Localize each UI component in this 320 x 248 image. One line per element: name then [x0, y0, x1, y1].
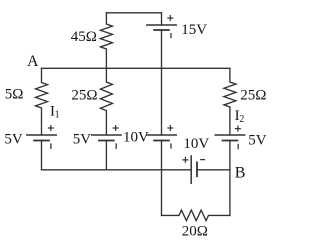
wire C3 lower: [161, 141, 163, 216]
battery 5V right: [215, 126, 244, 215]
resistor R 25ohm left: [100, 68, 112, 135]
svg-text:1: 1: [55, 109, 60, 120]
svg-text:15V: 15V: [181, 22, 207, 38]
svg-text:A: A: [27, 53, 39, 70]
battery 5V middle: [92, 126, 121, 170]
battery 15V: [147, 13, 176, 69]
resistor R 45ohm: [100, 13, 112, 69]
resistor R 5ohm: [36, 68, 48, 135]
svg-text:5V: 5V: [73, 131, 92, 147]
resistor R 25ohm right: [224, 68, 236, 135]
wire top rail: [106, 12, 161, 14]
resistor R 20ohm bottom: [162, 210, 230, 221]
svg-text:B: B: [235, 165, 246, 182]
battery 10V column: [147, 68, 176, 148]
battery 5V left: [27, 126, 56, 170]
svg-text:45Ω: 45Ω: [71, 29, 97, 45]
svg-text:2: 2: [239, 114, 244, 125]
battery 10V horizontal: [183, 156, 204, 183]
svg-text:25Ω: 25Ω: [240, 88, 266, 104]
wire B rail: [197, 169, 230, 171]
svg-text:5V: 5V: [4, 131, 23, 147]
wire A rail: [42, 67, 230, 69]
svg-text:25Ω: 25Ω: [71, 88, 97, 104]
svg-text:20Ω: 20Ω: [182, 223, 208, 239]
wire mid rail left: [42, 169, 192, 171]
svg-text:10V: 10V: [183, 136, 209, 152]
svg-text:5V: 5V: [248, 132, 266, 148]
svg-text:5Ω: 5Ω: [5, 87, 24, 103]
svg-text:10V: 10V: [123, 130, 149, 146]
